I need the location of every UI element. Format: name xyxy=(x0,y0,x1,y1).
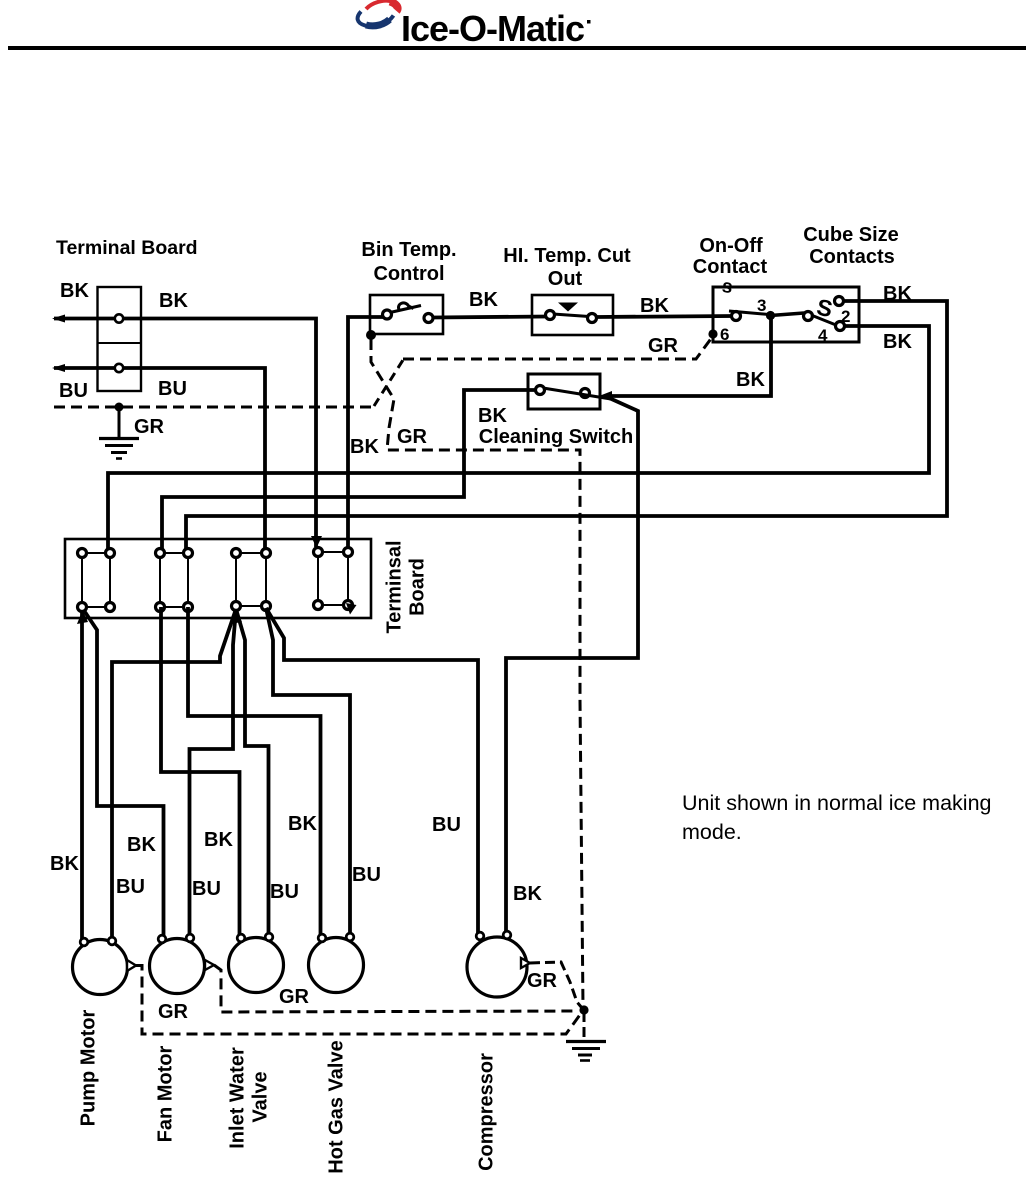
fan motor xyxy=(150,939,205,994)
TB1 terminal (bottom) xyxy=(115,364,123,372)
svg-text:Inlet Water: Inlet Water xyxy=(227,1047,249,1149)
hi temp cut out box xyxy=(532,295,613,335)
svg-text:mode.: mode. xyxy=(682,820,742,844)
svg-text:BK: BK xyxy=(469,289,498,311)
hi temp switch xyxy=(546,311,555,320)
wire bin temp to hi temp cut out xyxy=(432,317,547,318)
cube size switch lever xyxy=(771,313,805,316)
wire pump motor BU xyxy=(112,609,236,941)
svg-text:6: 6 xyxy=(720,325,729,344)
SR2 block xyxy=(160,553,188,607)
svg-text:BK: BK xyxy=(513,883,542,905)
svg-text:Bin Temp.: Bin Temp. xyxy=(361,239,456,261)
ground symbol TB1 xyxy=(118,407,121,437)
terminal board TB1 box xyxy=(98,287,142,391)
svg-text:BU: BU xyxy=(59,380,88,402)
svg-text:2: 2 xyxy=(841,307,850,326)
SR1 block xyxy=(82,553,110,607)
junction dot node 3 xyxy=(766,311,775,320)
wire hot gas valve BK xyxy=(188,607,321,938)
ground symbol bottom xyxy=(583,1012,586,1039)
wire fan motor BU xyxy=(190,609,237,938)
svg-text:3: 3 xyxy=(757,296,766,315)
wire hi temp to on-off contact xyxy=(596,316,733,317)
wire from SR4 right column up to bin temp control xyxy=(348,317,384,552)
svg-text:4: 4 xyxy=(818,326,828,345)
svg-text:BU: BU xyxy=(432,814,461,836)
hot gas valve motor xyxy=(309,938,364,993)
wire compressor BK from cleaning switch xyxy=(506,397,638,935)
junction dot node 6 xyxy=(708,329,717,338)
wire: supply BK through TB1 to terminal board 2 (SR4 left) xyxy=(54,319,316,548)
svg-text:BK: BK xyxy=(288,813,317,835)
svg-text:On-Off: On-Off xyxy=(699,235,763,257)
svg-text:BK: BK xyxy=(478,405,507,427)
compressor motor xyxy=(467,937,527,997)
logo swoosh xyxy=(358,1,399,27)
cube terminal 2 xyxy=(835,297,844,306)
svg-text:Contact: Contact xyxy=(693,256,768,278)
svg-text:Fan Motor: Fan Motor xyxy=(155,1045,177,1142)
SR3 block xyxy=(236,553,266,606)
wire cube terminal 2 right and down to SR2 right column xyxy=(186,301,947,553)
svg-text:BU: BU xyxy=(158,378,187,400)
wire on-off node 3 down to cleaning switch (arrow) xyxy=(606,316,771,396)
svg-text:Unit shown in normal ice makin: Unit shown in normal ice making xyxy=(682,791,992,815)
wire: supply BU through TB1 down to SR3 right xyxy=(54,368,265,553)
header rule xyxy=(8,46,1026,50)
TB1 terminal (top) xyxy=(115,314,123,322)
ground node dot at TB1 xyxy=(115,403,124,412)
svg-text:Cube Size: Cube Size xyxy=(803,224,899,246)
svg-text:Board: Board xyxy=(407,558,429,616)
svg-text:BU: BU xyxy=(192,878,221,900)
svg-text:BU: BU xyxy=(352,864,381,886)
junction dot at bin temp lower-left xyxy=(366,330,376,340)
svg-text:BK: BK xyxy=(640,295,669,317)
svg-text:Pump Motor: Pump Motor xyxy=(78,1009,100,1126)
svg-text:Out: Out xyxy=(548,268,583,290)
wire fan motor BK xyxy=(85,612,164,938)
on-off switch xyxy=(732,312,741,321)
dashed GR wire from TB1 ground to the right xyxy=(54,406,374,409)
bin temp control box xyxy=(370,295,443,334)
svg-text:BU: BU xyxy=(116,876,145,898)
svg-text:GR: GR xyxy=(134,416,165,438)
SR4 block xyxy=(318,552,348,605)
wire compressor BU xyxy=(266,608,478,936)
svg-text:Control: Control xyxy=(373,263,444,285)
wire inlet water valve BU xyxy=(236,609,269,937)
inlet water valve motor xyxy=(229,938,284,993)
svg-text:GR: GR xyxy=(648,335,679,357)
svg-text:Hot Gas Valve: Hot Gas Valve xyxy=(326,1040,348,1173)
svg-text:BK: BK xyxy=(350,436,379,458)
wire inlet water valve BK xyxy=(161,607,240,938)
svg-text:BK: BK xyxy=(736,369,765,391)
wire cleaning switch left to SR2 left column xyxy=(162,390,536,553)
pump motor xyxy=(73,940,128,995)
svg-text:GR: GR xyxy=(279,986,310,1008)
wire cube terminal 4 right and down to SR1 right column xyxy=(108,326,929,553)
svg-text:GR: GR xyxy=(527,970,558,992)
svg-text:Valve: Valve xyxy=(250,1071,272,1122)
dashed GR compressor xyxy=(530,962,582,1008)
svg-text:GR: GR xyxy=(158,1001,189,1023)
terminal board 2 (Terminsal Board) outer box xyxy=(65,539,371,618)
cleaning switch box xyxy=(528,374,600,409)
svg-text:BK: BK xyxy=(883,331,912,353)
svg-text:BK: BK xyxy=(60,280,89,302)
ground junction dot bottom xyxy=(579,1005,588,1014)
svg-text:Ice-O-Matic: Ice-O-Matic xyxy=(401,8,584,49)
cleaning switch xyxy=(536,386,545,395)
svg-text:GR: GR xyxy=(397,426,428,448)
wire pump motor BK xyxy=(80,611,84,941)
svg-text:Cleaning Switch: Cleaning Switch xyxy=(479,426,633,448)
dashed GR from bin temp dot down to bottom ground xyxy=(371,339,583,1007)
svg-text:Contacts: Contacts xyxy=(809,246,895,268)
svg-text:Terminal Board: Terminal Board xyxy=(56,237,198,259)
svg-text:BU: BU xyxy=(270,881,299,903)
dashed GR pump motor xyxy=(136,966,582,1035)
svg-text:BK: BK xyxy=(159,290,188,312)
svg-text:BK: BK xyxy=(204,829,233,851)
svg-text:HI. Temp. Cut: HI. Temp. Cut xyxy=(503,245,631,267)
svg-text:Terminsal: Terminsal xyxy=(384,541,406,634)
svg-text:BK: BK xyxy=(50,853,79,875)
svg-text:BK: BK xyxy=(127,834,156,856)
dashed GR fan motor xyxy=(214,965,578,1012)
svg-text:Compressor: Compressor xyxy=(476,1053,498,1171)
on-off / cube size contacts box xyxy=(713,287,859,342)
cube terminal 4 xyxy=(836,322,845,331)
wire hot gas valve BU xyxy=(266,608,350,937)
bin temp switch xyxy=(383,310,392,319)
